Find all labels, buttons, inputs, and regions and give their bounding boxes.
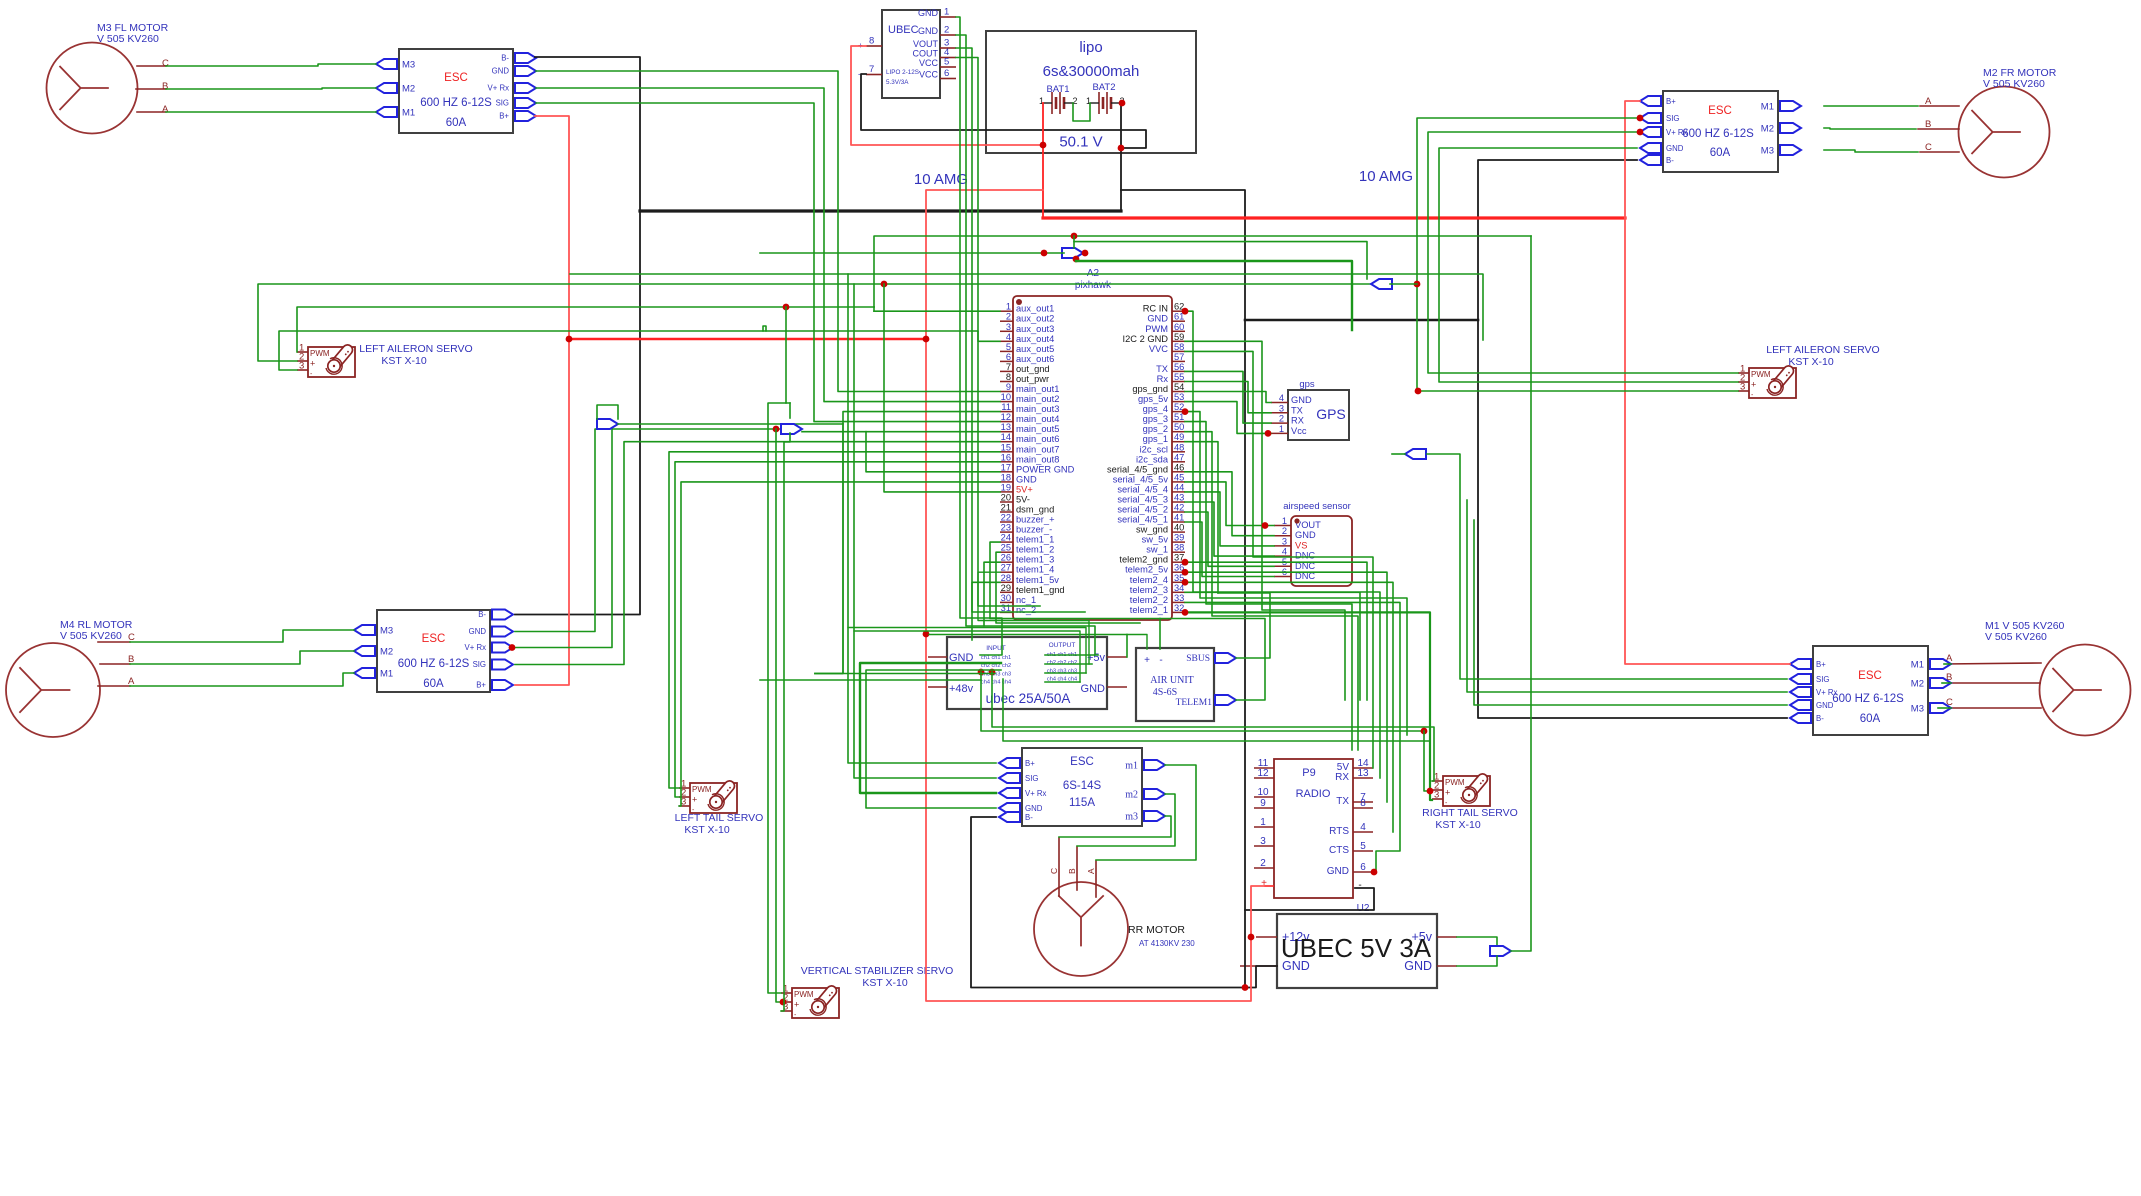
- wire ESC115 B+ feed: [848, 274, 996, 763]
- wire loop right leg: [789, 403, 791, 418]
- svg-text:telem2_2: telem2_2: [1130, 595, 1168, 605]
- svg-text:28: 28: [1001, 573, 1011, 583]
- svg-text:17: 17: [1001, 462, 1011, 472]
- motor RR lead B: [1076, 847, 1078, 890]
- svg-text:5: 5: [944, 57, 949, 68]
- svg-text:sw_5v: sw_5v: [1142, 535, 1169, 545]
- svg-text:-: -: [1358, 880, 1361, 891]
- wire VS pin2 long drop: [776, 429, 781, 1002]
- svg-text:30: 30: [1001, 593, 1011, 603]
- wire UBEC out1 to ubec INPUT ch1: [956, 17, 1002, 655]
- svg-text:20: 20: [1001, 492, 1011, 502]
- ESC U5 (60A, rear-right): [1790, 646, 1951, 735]
- svg-text:SIG: SIG: [1666, 114, 1679, 123]
- motor M3 lead A: [137, 111, 166, 113]
- wire RT pin3 horizontal: [1003, 679, 1430, 741]
- svg-text:telem2_1: telem2_1: [1130, 605, 1168, 615]
- svg-text:buzzer_+: buzzer_+: [1016, 515, 1055, 525]
- junction telem2_gnd: [1182, 559, 1189, 566]
- svg-text:7: 7: [869, 64, 874, 75]
- svg-text:aux_out5: aux_out5: [1016, 344, 1054, 354]
- svg-text:8: 8: [869, 36, 874, 47]
- svg-text:48: 48: [1174, 442, 1184, 452]
- motor M4 lead B: [100, 663, 130, 665]
- svg-text:6: 6: [944, 68, 949, 79]
- wire M2 phase A: [1824, 105, 1918, 107]
- junction N3 bottom: [1073, 256, 1080, 263]
- svg-text:600 HZ 6-12S: 600 HZ 6-12S: [1832, 693, 1904, 705]
- svg-text:RR MOTOR: RR MOTOR: [1128, 924, 1185, 936]
- junction +48v net: [923, 631, 930, 638]
- svg-text:VCC: VCC: [919, 70, 939, 80]
- svg-text:56: 56: [1174, 362, 1184, 372]
- svg-text:M2: M2: [1761, 124, 1774, 135]
- wire ESC-BL V+Rx to node P2: [512, 429, 781, 648]
- wire gps_2 drop: [1185, 432, 1358, 750]
- junction ubec in ch3 b: [989, 669, 996, 676]
- wire telem2_2 to P9 CTS: [1185, 602, 1400, 872]
- svg-text:13: 13: [1357, 768, 1369, 779]
- wire telem2_4 to P9 RTS: [1185, 582, 1393, 832]
- wire gnd bus (10 AMG left, thick): [640, 209, 1121, 212]
- junction node N2 in: [773, 426, 780, 433]
- ESC U4 (60A, RL): [354, 610, 513, 693]
- svg-text:43: 43: [1174, 492, 1184, 502]
- svg-text:12: 12: [1257, 768, 1269, 779]
- svg-text:telem1_1: telem1_1: [1016, 535, 1054, 545]
- label motor M3: [97, 22, 169, 45]
- svg-text:C: C: [1049, 868, 1059, 874]
- svg-text:47: 47: [1174, 452, 1184, 462]
- wire gnd branch to U2 minus: [1245, 888, 1374, 910]
- svg-text:23: 23: [1001, 523, 1011, 533]
- svg-text:59: 59: [1174, 332, 1184, 342]
- motor M4 (RL MOTOR): [6, 643, 100, 737]
- wire gnd center drop: [1121, 190, 1245, 988]
- svg-text:26: 26: [1001, 553, 1011, 563]
- junction left +bat bus: [566, 336, 573, 343]
- svg-text:RX: RX: [1335, 772, 1349, 783]
- svg-text:i2c_sda: i2c_sda: [1136, 454, 1169, 464]
- svg-text:ESC: ESC: [444, 72, 468, 84]
- svg-text:B-: B-: [1025, 813, 1033, 822]
- wire N6 tip: [1392, 453, 1405, 455]
- motor M4 phase labels: [128, 632, 135, 687]
- wire M2 phase B: [1824, 128, 1916, 129]
- junction RT pin2: [1427, 788, 1434, 795]
- svg-text:2: 2: [1006, 312, 1011, 322]
- svg-text:18: 18: [1001, 472, 1011, 482]
- wire RT pin1 feed: [992, 672, 1434, 781]
- wire RC IN drop to P9 RX: [1185, 311, 1380, 778]
- label 10 AMG (right): [1359, 168, 1413, 185]
- svg-text:telem1_3: telem1_3: [1016, 555, 1054, 565]
- svg-text:GND: GND: [1081, 683, 1106, 695]
- svg-text:gps_2: gps_2: [1143, 424, 1168, 434]
- junction RC IN: [1182, 308, 1189, 315]
- svg-text:9: 9: [1260, 798, 1266, 809]
- wire pixhawk telem1_5v: [972, 582, 1000, 640]
- battery BAT2: [1086, 92, 1125, 114]
- svg-text:1: 1: [944, 7, 949, 18]
- wire LA-L pin2 (+5v long bus): [258, 284, 1371, 361]
- svg-text:main_out4: main_out4: [1016, 414, 1059, 424]
- svg-text:main_out3: main_out3: [1016, 404, 1059, 414]
- svg-text:main_out6: main_out6: [1016, 434, 1059, 444]
- svg-text:sw_gnd: sw_gnd: [1136, 525, 1168, 535]
- svg-text:SIG: SIG: [1816, 675, 1829, 684]
- wire VS pin1 long drop: [768, 403, 790, 993]
- motor M3 (FL MOTOR): [47, 43, 138, 134]
- svg-text:AIR UNIT: AIR UNIT: [1150, 675, 1194, 686]
- svg-text:5: 5: [1006, 342, 1011, 352]
- wire ubec input ch3b: [815, 673, 995, 675]
- svg-text:V+ Rx: V+ Rx: [465, 643, 487, 652]
- wire M3 phase B: [166, 88, 376, 89]
- wire UBEC5V GND to node: [1457, 956, 1497, 966]
- svg-text:GND: GND: [918, 8, 939, 18]
- svg-text:B+: B+: [1816, 660, 1826, 669]
- svg-text:M1: M1: [380, 669, 393, 680]
- svg-text:3: 3: [1260, 836, 1266, 847]
- svg-text:4: 4: [1279, 393, 1284, 403]
- svg-text:RC IN: RC IN: [1143, 304, 1168, 314]
- svg-text:600 HZ 6-12S: 600 HZ 6-12S: [398, 658, 470, 670]
- svg-text:m2: m2: [1125, 790, 1138, 801]
- GPS module: [1271, 379, 1349, 440]
- svg-text:44: 44: [1174, 482, 1184, 492]
- wire M1 phase A: [1944, 663, 1951, 665]
- junction ESC-BL V+Rx: [509, 644, 516, 651]
- wire aux feed: [873, 307, 875, 311]
- svg-text:out_pwr: out_pwr: [1016, 374, 1049, 384]
- wire M4 phase C: [130, 630, 354, 642]
- label U2: [1357, 903, 1370, 914]
- svg-text:GND: GND: [1291, 395, 1312, 405]
- RIGHT TAIL SERVO: [1422, 772, 1518, 832]
- wire pixhawk GND to LT pin3: [679, 482, 1000, 806]
- svg-text:+: +: [794, 1000, 799, 1010]
- wire ESC115 GND feed: [866, 670, 1001, 808]
- wire LA-L pin1 (signal): [297, 307, 874, 352]
- svg-text:i2c_scl: i2c_scl: [1140, 444, 1168, 454]
- svg-text:60A: 60A: [1860, 713, 1881, 725]
- svg-text:m1: m1: [1125, 761, 1138, 772]
- svg-text:12: 12: [1001, 412, 1011, 422]
- svg-text:CTS: CTS: [1329, 845, 1349, 856]
- svg-text:LIPO 2-12S: LIPO 2-12S: [886, 69, 919, 76]
- svg-text:dsm_gnd: dsm_gnd: [1016, 505, 1054, 515]
- wire +bat left bus: [569, 338, 926, 341]
- wire telem2_5v to P9 TX: [1185, 572, 1387, 802]
- wire +bat thick bus (10 AMG right): [1043, 216, 1625, 219]
- wire ESC-BR V+Rx feed: [1467, 500, 1787, 692]
- wire serial5v to airspeed VOUT: [1185, 482, 1274, 526]
- motor M4 lead C: [98, 641, 130, 643]
- svg-text:telem1_2: telem1_2: [1016, 545, 1054, 555]
- svg-text:24: 24: [1001, 533, 1011, 543]
- wire RR phase C: [1059, 816, 1171, 837]
- svg-text:serial_4/5_1: serial_4/5_1: [1117, 515, 1168, 525]
- svg-text:46: 46: [1174, 462, 1184, 472]
- svg-text:UBEC: UBEC: [888, 24, 919, 36]
- wire M4 phase B: [130, 651, 354, 664]
- svg-text:4: 4: [1006, 332, 1011, 342]
- wire ESC-TR GND to LA-R pin2: [1439, 148, 1738, 382]
- svg-text:ubec 25A/50A: ubec 25A/50A: [986, 691, 1071, 706]
- svg-text:main_out5: main_out5: [1016, 424, 1059, 434]
- junction VS pin2: [780, 999, 787, 1006]
- svg-text:V+ Rx: V+ Rx: [1666, 128, 1688, 137]
- svg-text:VERTICAL STABILIZER SERVO: VERTICAL STABILIZER SERVO: [801, 965, 954, 977]
- wire gnd lipo to UBEC pin7: [861, 74, 1146, 148]
- svg-text:U2: U2: [1357, 903, 1370, 914]
- wire ESC-TL SIG to pixhawk: [536, 103, 1000, 422]
- svg-text:RIGHT TAIL SERVO: RIGHT TAIL SERVO: [1422, 807, 1518, 819]
- svg-text:57: 57: [1174, 352, 1184, 362]
- svg-text:2: 2: [1282, 526, 1287, 536]
- svg-text:1: 1: [1260, 817, 1266, 828]
- svg-text:main_out2: main_out2: [1016, 394, 1059, 404]
- svg-text:LEFT AILERON SERVO: LEFT AILERON SERVO: [1766, 344, 1879, 356]
- svg-text:LEFT TAIL SERVO: LEFT TAIL SERVO: [675, 812, 764, 824]
- svg-text:1: 1: [1006, 302, 1011, 312]
- svg-text:ESC: ESC: [1858, 670, 1882, 682]
- svg-text:60A: 60A: [1710, 147, 1731, 159]
- wire pixhawk main_out8 to LT pin2: [675, 462, 1000, 797]
- wire ESC115 SIG feed: [854, 284, 996, 778]
- wire AIR UNIT minus to telem1 net: [1159, 619, 1161, 650]
- svg-text:GPS: GPS: [1316, 406, 1346, 422]
- node connector N5 (UBEC5V out): [1490, 946, 1511, 956]
- svg-text:serial_4/5_5v: serial_4/5_5v: [1113, 474, 1169, 484]
- wire +5 line to AIR UNIT plus: [929, 635, 1147, 650]
- svg-text:33: 33: [1174, 593, 1184, 603]
- svg-text:telem1_gnd: telem1_gnd: [1016, 585, 1065, 595]
- motor M4 lead A: [98, 685, 130, 687]
- svg-text:BAT2: BAT2: [1092, 82, 1115, 93]
- svg-text:aux_out4: aux_out4: [1016, 334, 1054, 344]
- wire UBEC5V out riser: [1511, 236, 1531, 951]
- wire M2 phase C: [1824, 150, 1918, 152]
- node connector N2: [781, 424, 802, 434]
- wire node N1 bypass loop: [597, 405, 618, 419]
- svg-text:GND: GND: [1147, 314, 1168, 324]
- motor M1 lead A: [1944, 663, 2041, 664]
- svg-text:53: 53: [1174, 392, 1184, 402]
- wire gnd lipo BAT2 drop: [1120, 103, 1122, 211]
- svg-text:B: B: [1067, 868, 1077, 874]
- wire UBEC5V +5v to node: [1457, 937, 1497, 946]
- svg-text:M3: M3: [402, 60, 415, 71]
- svg-text:KST X-10: KST X-10: [684, 824, 729, 836]
- svg-text:M2: M2: [1911, 679, 1924, 690]
- wire VS pin3 drop: [781, 433, 790, 1011]
- svg-text:4: 4: [1282, 547, 1287, 557]
- svg-text:14: 14: [1001, 432, 1011, 442]
- wire N4 tail: [1390, 283, 1417, 285]
- airspeed sensor: [1274, 501, 1352, 586]
- junction telem2_4: [1182, 579, 1189, 586]
- wire ESC-TR V+Rx to LA-R pin1: [1428, 132, 1738, 373]
- wire gps_1 drop to SBUS: [1185, 442, 1218, 593]
- wire ubec input ch4: [760, 679, 981, 681]
- wire telem2_gnd: [1185, 562, 1367, 700]
- junction +bat UBEC: [1040, 142, 1047, 149]
- svg-text:2: 2: [1279, 414, 1284, 424]
- wire telem2_3: [1185, 592, 1360, 700]
- svg-text:telem2_3: telem2_3: [1130, 585, 1168, 595]
- wire gnd ESC 6S-14S B- to UBEC5V: [971, 817, 1277, 988]
- svg-text:40: 40: [1174, 523, 1184, 533]
- svg-text:INPUT: INPUT: [986, 645, 1006, 652]
- svg-text:gps_5v: gps_5v: [1138, 394, 1168, 404]
- wire ubec out row4: [1045, 681, 1080, 683]
- wire +5 branch to ubec +5v: [1126, 635, 1128, 658]
- wire +bat left branch: [926, 190, 1264, 1001]
- svg-text:gps_1: gps_1: [1143, 434, 1168, 444]
- wire serialgnd to airspeed GND: [1185, 472, 1274, 536]
- svg-text:AT 4130KV 230: AT 4130KV 230: [1139, 939, 1195, 948]
- svg-text:7: 7: [1006, 362, 1011, 372]
- svg-text:58: 58: [1174, 342, 1184, 352]
- svg-text:TELEM1: TELEM1: [1176, 698, 1213, 708]
- wire RT pin2 drop: [1424, 731, 1432, 791]
- svg-text:serial_4/5_2: serial_4/5_2: [1117, 505, 1168, 515]
- svg-text:KST X-10: KST X-10: [1788, 356, 1833, 368]
- svg-text:telem2_gnd: telem2_gnd: [1119, 555, 1168, 565]
- wire gps_gnd to GPS GND: [1185, 392, 1271, 403]
- motor RR lead A: [1095, 861, 1097, 897]
- svg-text:-: -: [1159, 655, 1162, 666]
- svg-text:ESC: ESC: [1070, 756, 1094, 768]
- wire pixhawk aux_out1: [874, 310, 1000, 312]
- svg-text:54: 54: [1174, 382, 1184, 392]
- svg-text:19: 19: [1001, 482, 1011, 492]
- svg-text:Vcc: Vcc: [1291, 426, 1307, 436]
- motor RR phase labels: [1049, 868, 1096, 874]
- junction gnd bottom: [1242, 984, 1249, 991]
- svg-text:4: 4: [1360, 822, 1366, 833]
- node connector N6: [1405, 449, 1426, 459]
- wire UBEC out3: [956, 48, 1085, 612]
- svg-text:VVC: VVC: [1149, 344, 1168, 354]
- wire serial2 to airspeed DNC5: [1185, 512, 1274, 566]
- svg-text:1: 1: [1282, 516, 1287, 526]
- motor M3 leads: [137, 65, 166, 67]
- svg-text:TX: TX: [1291, 405, 1303, 415]
- junction P9 GND: [1371, 869, 1378, 876]
- LEFT TAIL SERVO: [675, 779, 764, 837]
- wire gps_5v to GPS Vcc: [1185, 402, 1271, 434]
- svg-text:B+: B+: [476, 681, 486, 690]
- svg-text:5V+: 5V+: [1016, 484, 1033, 494]
- svg-text:M3: M3: [1761, 146, 1774, 157]
- junction GPS Vcc: [1265, 430, 1272, 437]
- svg-text:lipo: lipo: [1079, 39, 1102, 56]
- svg-text:RX: RX: [1291, 416, 1304, 426]
- svg-text:10 AMG: 10 AMG: [1359, 168, 1413, 185]
- svg-text:3: 3: [1279, 403, 1284, 413]
- svg-text:aux_out6: aux_out6: [1016, 354, 1054, 364]
- pixhawk flight controller A2: [1000, 268, 1185, 620]
- svg-text:+48v: +48v: [949, 683, 974, 695]
- motor M2 phase labels: [1925, 96, 1932, 153]
- svg-text:27: 27: [1001, 563, 1011, 573]
- svg-text:+: +: [1445, 788, 1450, 798]
- svg-text:telem1_4: telem1_4: [1016, 565, 1054, 575]
- svg-text:2: 2: [944, 25, 949, 36]
- wire 5v drop to pixhawk 5V+: [884, 284, 1000, 492]
- svg-text:gps_4: gps_4: [1143, 404, 1168, 414]
- LEFT AILERON SERVO (left): [297, 343, 473, 379]
- svg-text:600 HZ 6-12S: 600 HZ 6-12S: [420, 97, 492, 109]
- svg-text:6S-14S: 6S-14S: [1063, 780, 1102, 792]
- svg-text:B+: B+: [1666, 97, 1676, 106]
- junction +12v net: [1248, 934, 1255, 941]
- svg-text:ch1 ch1 ch1: ch1 ch1 ch1: [981, 655, 1011, 661]
- svg-text:6: 6: [1360, 862, 1366, 873]
- svg-text:+: +: [1144, 655, 1150, 666]
- svg-text:RTS: RTS: [1329, 826, 1349, 837]
- LEFT AILERON SERVO (right): [1738, 344, 1880, 399]
- svg-text:VCC: VCC: [919, 58, 939, 68]
- svg-text:pixhawk: pixhawk: [1075, 280, 1112, 291]
- svg-text:3: 3: [1740, 382, 1745, 393]
- svg-text:M2: M2: [380, 647, 393, 658]
- svg-text:telem1_5v: telem1_5v: [1016, 575, 1059, 585]
- svg-text:45: 45: [1174, 472, 1184, 482]
- svg-text:BAT1: BAT1: [1046, 84, 1069, 95]
- svg-text:aux_out1: aux_out1: [1016, 304, 1054, 314]
- svg-text:50.1 V: 50.1 V: [1059, 134, 1102, 151]
- junction N3 top: [1071, 233, 1078, 240]
- svg-text:GND: GND: [1816, 701, 1834, 710]
- wire +bat left riser (ESC-TL/BL B+): [515, 116, 569, 685]
- motor M3 lead B: [136, 88, 166, 90]
- junction N3 in: [1041, 250, 1048, 257]
- svg-text:1: 1: [1279, 424, 1284, 434]
- wire M1 phase B: [1942, 682, 1951, 684]
- svg-text:600 HZ 6-12S: 600 HZ 6-12S: [1682, 128, 1754, 140]
- junction telem2_5v: [1182, 569, 1189, 576]
- svg-text:KST X-10: KST X-10: [1435, 819, 1480, 831]
- svg-text:5: 5: [1360, 841, 1366, 852]
- motor M1 phase labels: [1946, 653, 1953, 708]
- wire ESC-TR SIG riser: [1417, 118, 1738, 391]
- wire bus y241: [1074, 242, 1367, 279]
- svg-text:main_out7: main_out7: [1016, 444, 1059, 454]
- svg-text:A: A: [162, 104, 169, 115]
- wire ESC-BL GND riser: [515, 429, 598, 632]
- junction airspeed VOUT: [1262, 522, 1269, 529]
- svg-text:38: 38: [1174, 543, 1184, 553]
- svg-text:115A: 115A: [1069, 797, 1095, 809]
- svg-text:V+ Rx: V+ Rx: [488, 84, 510, 93]
- wire gnd branch to right riser: [1245, 319, 1478, 322]
- svg-text:KST X-10: KST X-10: [862, 977, 907, 989]
- svg-text:V 505 KV260: V 505 KV260: [97, 33, 159, 45]
- label motor M1: [1985, 620, 2065, 643]
- svg-text:V 505 KV260: V 505 KV260: [1985, 631, 2047, 643]
- wire net label notch: [763, 326, 766, 331]
- svg-text:serial_4/5_3: serial_4/5_3: [1117, 494, 1168, 504]
- junction 5v to pixhawk: [881, 281, 888, 288]
- svg-text:airspeed sensor: airspeed sensor: [1283, 501, 1351, 512]
- wire node N1 to trunk: [618, 412, 1000, 424]
- UBEC (top) U7: [858, 7, 956, 99]
- svg-text:41: 41: [1174, 513, 1184, 523]
